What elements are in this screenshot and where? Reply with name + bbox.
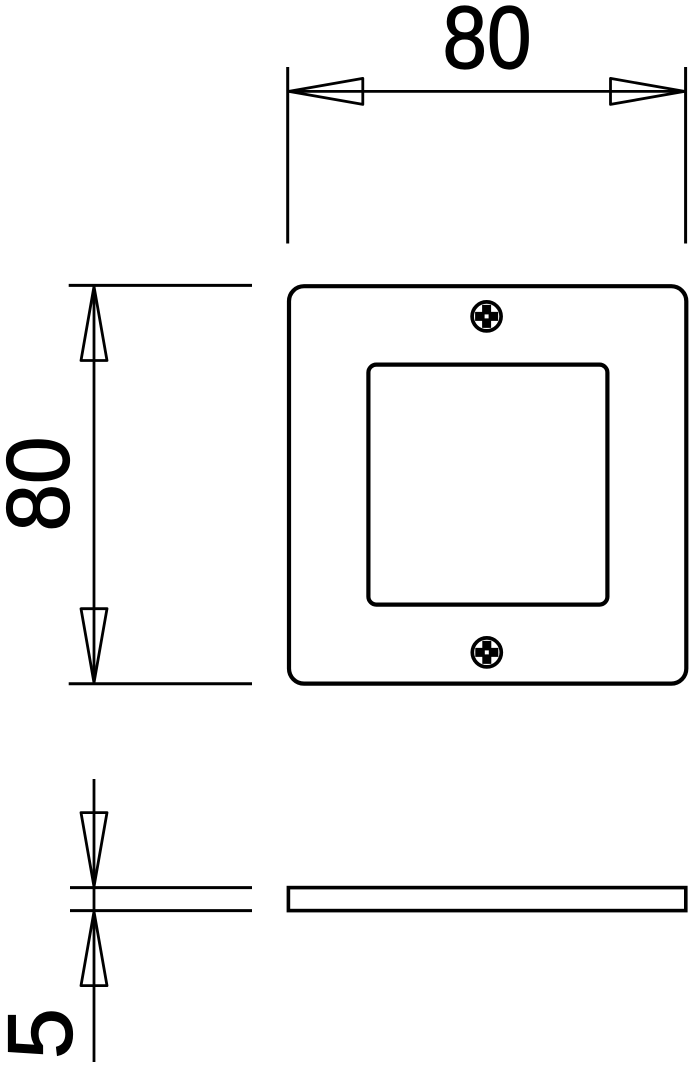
- extension line (left-bottom): [69, 682, 252, 685]
- extension line (thickness, bottom): [70, 909, 252, 912]
- arrowhead (thickness dimension, upper pointing down): [81, 813, 107, 887]
- screw (bottom): head circle: [472, 638, 501, 667]
- arrowhead (top dimension, right): [611, 78, 685, 104]
- dimension line (top, horizontal): [288, 90, 686, 93]
- arrowhead (left dimension, top): [81, 287, 107, 361]
- svg-text:5: 5: [0, 1008, 92, 1059]
- plate outer outline (front view): [289, 286, 686, 683]
- extension line (thickness, top): [70, 886, 252, 889]
- plate inner window outline: [368, 365, 607, 605]
- arrowhead (thickness dimension, lower pointing up): [81, 912, 107, 986]
- arrowhead (left dimension, bottom): [81, 609, 107, 683]
- dimension line (thickness, vertical): [93, 779, 96, 1062]
- svg-text:80: 80: [0, 437, 88, 532]
- extension line (top-left): [286, 67, 289, 244]
- screw (top): head circle: [472, 302, 501, 331]
- extension line (top-right): [684, 67, 687, 244]
- dimension line (left, vertical): [93, 285, 96, 683]
- svg-text:80: 80: [443, 0, 532, 87]
- screw (bottom): phillips cross: [475, 641, 498, 664]
- screw (top): phillips cross: [475, 305, 498, 328]
- arrowhead (top dimension, left): [289, 78, 363, 104]
- extension line (left-top): [69, 284, 252, 287]
- side view plate (thin rectangle): [288, 888, 685, 911]
